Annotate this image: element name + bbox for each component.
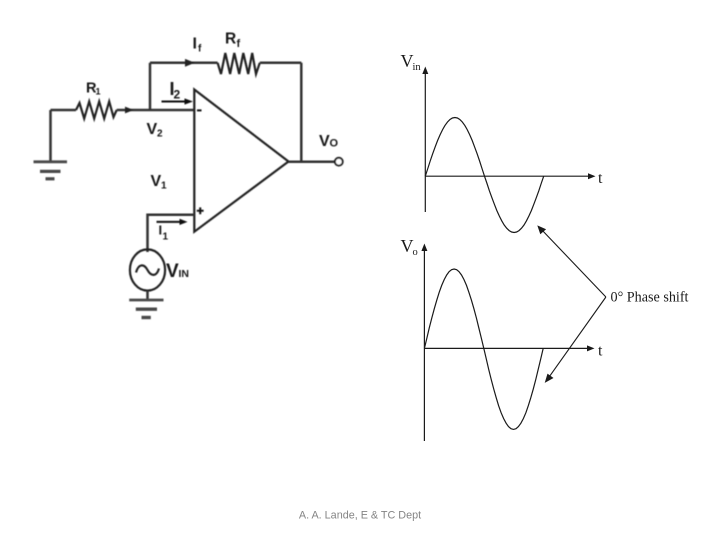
I1 arrow bbox=[157, 221, 182, 223]
y axis (Vo) bbox=[423, 248, 425, 442]
node V2 label bbox=[147, 121, 164, 140]
wire VIN to + input bbox=[148, 215, 195, 252]
svg-text:2: 2 bbox=[174, 88, 181, 102]
wire feedback left vertical bbox=[149, 63, 152, 110]
label Rf bbox=[225, 31, 241, 51]
wire VIN to ground bbox=[146, 291, 149, 299]
arrowhead on input wire bbox=[125, 107, 134, 114]
resistor R1 bbox=[76, 102, 117, 119]
y axis (Vin) bbox=[424, 71, 426, 212]
label Vo bbox=[401, 236, 418, 258]
label R1 bbox=[86, 81, 101, 97]
annotation arrow to Vo wave bbox=[548, 297, 606, 379]
sine wave Vin bbox=[425, 118, 543, 233]
wire feedback right vertical down to output bbox=[300, 63, 303, 162]
x axis (t) bbox=[425, 175, 590, 177]
label I1 bbox=[159, 223, 169, 243]
y axis arrowhead bbox=[421, 244, 427, 252]
svg-text:in: in bbox=[413, 62, 422, 73]
wire Rf to right vertical bbox=[260, 62, 302, 65]
svg-text:1: 1 bbox=[161, 181, 167, 192]
svg-text:V: V bbox=[147, 121, 158, 138]
svg-text:1: 1 bbox=[96, 87, 101, 97]
svg-text:o: o bbox=[413, 247, 418, 258]
label VIN bbox=[166, 261, 189, 282]
svg-text:t: t bbox=[598, 170, 603, 187]
V1 label bbox=[151, 173, 168, 192]
wire feedback top bbox=[150, 62, 218, 65]
output wire bbox=[289, 160, 335, 163]
label Vin bbox=[401, 51, 422, 73]
minus sign (inverting input) bbox=[197, 109, 202, 111]
wire ground to R1 bbox=[51, 109, 77, 112]
svg-text:f: f bbox=[198, 44, 202, 55]
op-amp U1 triangle bbox=[194, 90, 288, 232]
source VIN (sine source) bbox=[130, 249, 165, 290]
label If bbox=[193, 36, 203, 55]
svg-text:f: f bbox=[237, 38, 241, 50]
I2 arrow bbox=[162, 101, 187, 103]
svg-text:A. A. Lande, E & TC Dept: A. A. Lande, E & TC Dept bbox=[299, 510, 421, 522]
svg-text:V: V bbox=[166, 261, 179, 282]
arrowhead If on feedback wire bbox=[185, 59, 195, 67]
sine symbol inside source bbox=[136, 265, 159, 274]
x axis arrowhead bbox=[588, 173, 596, 179]
svg-text:t: t bbox=[598, 343, 603, 360]
wire R1 to node V2 / op-amp bbox=[117, 109, 195, 112]
svg-text:0° Phase shift: 0° Phase shift bbox=[611, 290, 690, 306]
label VO bbox=[319, 133, 339, 150]
label I2 bbox=[170, 79, 181, 102]
y axis arrowhead bbox=[422, 67, 428, 75]
ground (left, below R1) bbox=[34, 110, 68, 179]
annotation arrow to Vin trough bbox=[541, 229, 606, 298]
ground (below VIN) bbox=[129, 300, 163, 318]
svg-text:V: V bbox=[319, 133, 330, 150]
plus sign (non-inverting input) bbox=[197, 207, 204, 214]
resistor Rf bbox=[218, 53, 260, 74]
x axis arrowhead bbox=[587, 345, 595, 351]
x axis (t) bbox=[424, 347, 589, 349]
sine wave Vo bbox=[424, 269, 543, 429]
svg-text:R: R bbox=[225, 31, 236, 48]
output terminal bbox=[335, 158, 343, 166]
svg-text:2: 2 bbox=[157, 129, 163, 140]
svg-text:I: I bbox=[193, 36, 197, 53]
svg-text:1: 1 bbox=[163, 232, 169, 243]
svg-text:V: V bbox=[151, 173, 162, 190]
svg-text:O: O bbox=[330, 138, 339, 150]
svg-text:IN: IN bbox=[179, 268, 190, 280]
